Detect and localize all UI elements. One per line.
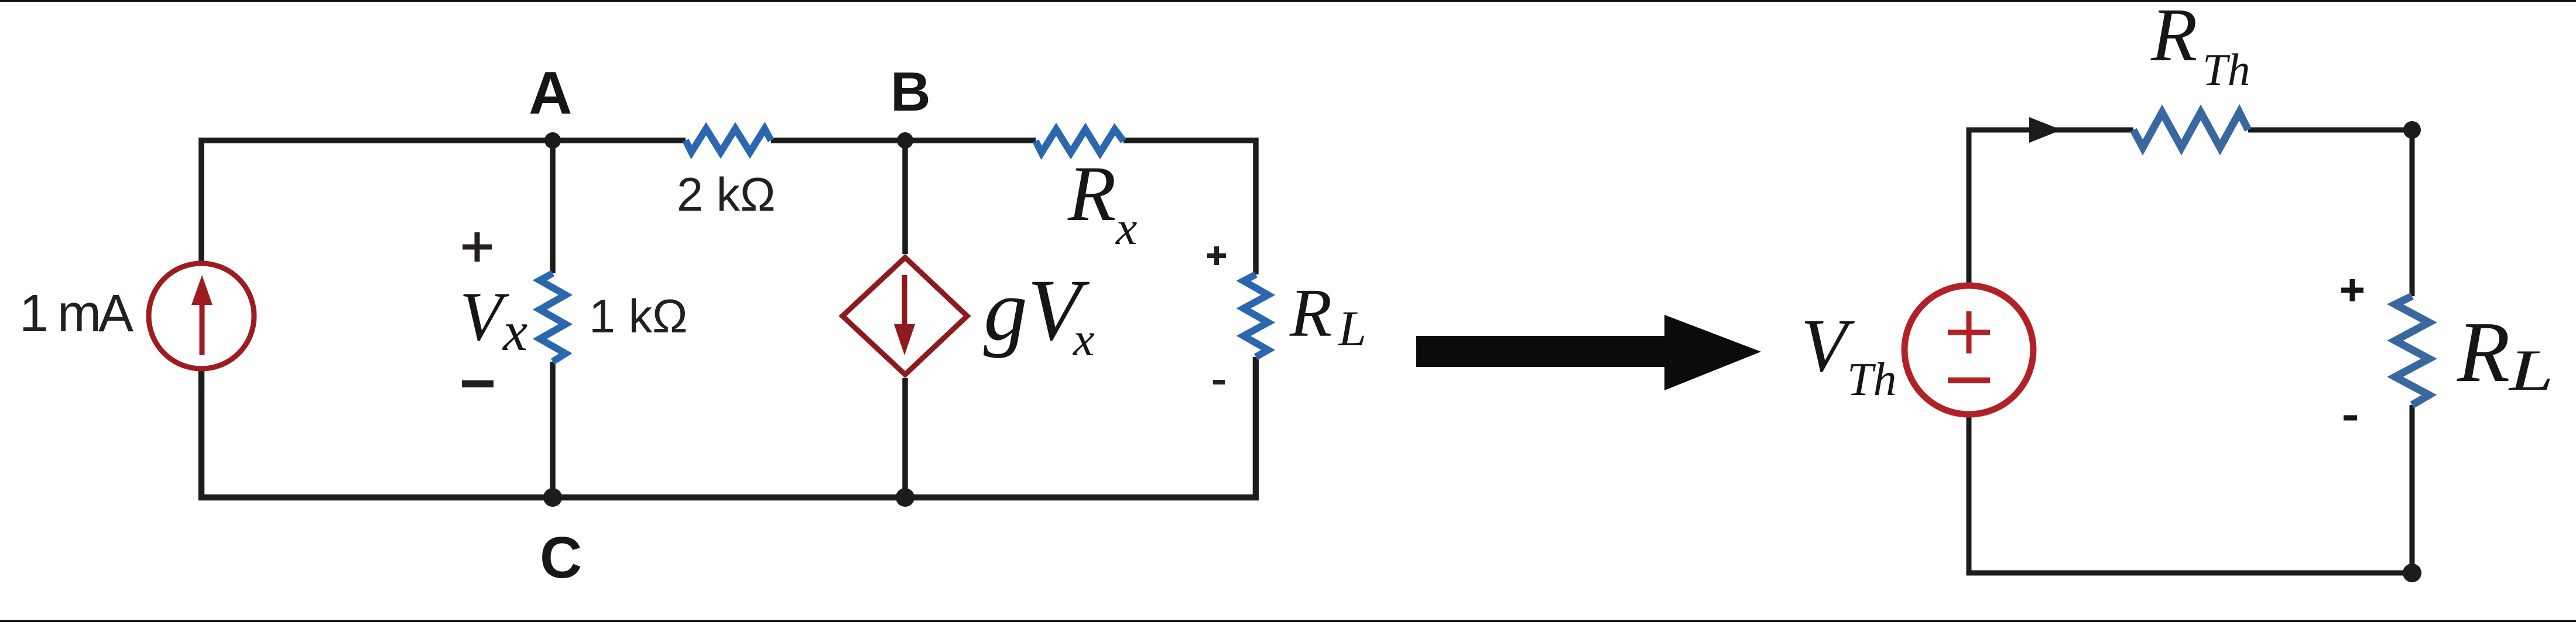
node B dot: [897, 132, 913, 149]
wire: 1k resistor down to bottom wire: [550, 362, 556, 497]
wire: top run between 2k resistor and Rx: [771, 138, 1036, 143]
svg-text:B: B: [890, 61, 931, 123]
plus sign for Vx: [463, 232, 492, 262]
svg-text:Th: Th: [2202, 44, 2250, 95]
svg-text:C: C: [540, 525, 582, 590]
node C dot (bottom under A): [543, 488, 562, 507]
resistor RL (right circuit) zigzag: [2395, 296, 2429, 405]
svg-text:x: x: [502, 300, 527, 362]
plus sign for RL (right): [2341, 279, 2363, 301]
current source I1 arrow: [191, 275, 213, 355]
node A dot: [544, 132, 561, 149]
resistor 2 kOhm zigzag: [686, 129, 771, 152]
svg-text:Th: Th: [1847, 354, 1897, 406]
wire: top-left corner of right circuit: [1969, 130, 2133, 283]
node dot top-right: [2403, 121, 2421, 139]
resistor Rx zigzag: [1036, 129, 1123, 153]
svg-text:R: R: [2457, 304, 2510, 400]
svg-text:2 kΩ: 2 kΩ: [677, 169, 776, 221]
svg-text:R: R: [1289, 274, 1332, 351]
current source I1 1 mA (circle): [149, 263, 254, 369]
svg-text:R: R: [1067, 150, 1116, 238]
svg-text:1 kΩ: 1 kΩ: [589, 290, 688, 343]
wire: top-left corner (left vertical upper + top run to 2k resistor): [201, 140, 686, 265]
resistor 1 kOhm zigzag (vertical): [540, 273, 566, 362]
wire: node A branch down to 1k resistor: [550, 140, 556, 273]
minus sign for Vx: [462, 380, 494, 387]
wire: dependent source down to bottom wire: [902, 378, 908, 497]
svg-text:L: L: [1337, 300, 1366, 356]
svg-text:R: R: [2150, 0, 2197, 77]
wire: top run from Rx to top-right corner, down to RL: [1123, 140, 1256, 274]
top border line: [0, 0, 2576, 2]
voltage source VTh (circle): [1904, 286, 2033, 414]
dependent source arrow: [894, 275, 915, 355]
dependent current source gVx (diamond): [842, 257, 967, 375]
wire: RTh to top-right corner down to RL: [2248, 130, 2412, 296]
big transform arrow: [1416, 315, 1761, 390]
bottom junction dot under B: [896, 488, 914, 507]
svg-text:L: L: [2508, 338, 2554, 403]
current direction arrowhead on top wire: [2029, 117, 2061, 143]
resistor RTh zigzag: [2133, 112, 2248, 147]
minus sign inside VTh: [1948, 377, 1990, 383]
svg-text:1 mA: 1 mA: [19, 284, 133, 343]
resistor RL (left circuit) zigzag: [1244, 274, 1268, 357]
svg-text:V: V: [460, 277, 509, 355]
minus sign for RL (right): [2344, 415, 2357, 421]
wire: below RL, bottom run, left vertical lower: [1969, 405, 2412, 573]
svg-text:A: A: [529, 59, 572, 126]
node dot bottom-right: [2403, 564, 2421, 582]
svg-text:x: x: [1115, 201, 1137, 255]
wire: left vertical lower + bottom run + right vertical below RL: [201, 357, 1256, 497]
bottom border line: [0, 620, 2576, 623]
plus sign inside VTh: [1948, 311, 1990, 353]
plus sign for RL (left): [1207, 246, 1226, 265]
svg-text:x: x: [1073, 312, 1094, 366]
wire: node B branch down to dependent source: [902, 140, 908, 254]
minus sign for RL (left): [1213, 380, 1225, 384]
